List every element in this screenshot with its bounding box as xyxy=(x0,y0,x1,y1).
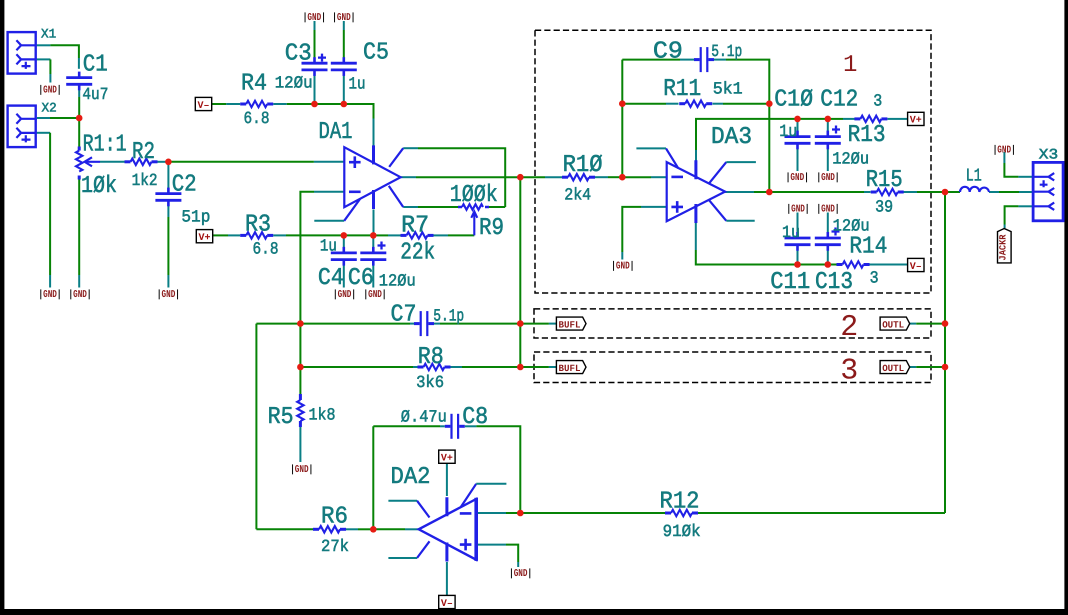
wire R3 to C4 node xyxy=(286,234,344,236)
wire C8 left xyxy=(373,425,440,427)
svg-text:|GND|: |GND| xyxy=(817,204,840,216)
wire C2 bottom lead xyxy=(167,203,169,217)
svg-text:|GND|: |GND| xyxy=(611,261,634,273)
svg-text:V+: V+ xyxy=(910,116,922,127)
junction bus top xyxy=(942,189,949,196)
wire R11 left stub xyxy=(666,103,679,105)
capacitor C8 xyxy=(445,414,465,439)
wire OUTL3 to bus xyxy=(916,366,945,368)
wire C5 gnd stub xyxy=(343,21,345,30)
wire C4 node to C6 node xyxy=(344,234,374,236)
wire DA2 pin stub a xyxy=(388,500,417,502)
wire C7 left stub xyxy=(410,323,414,325)
junction C4 xyxy=(341,232,348,239)
wire node to DA3 - xyxy=(622,176,651,178)
wire DA3 pwr top stub xyxy=(695,150,697,161)
svg-text:|GND|: |GND| xyxy=(787,204,810,216)
junction C6 xyxy=(370,232,377,239)
wire C8 right stub xyxy=(465,425,477,427)
svg-text:X2: X2 xyxy=(42,101,57,116)
wire X1 pin2 gnd stub xyxy=(49,74,51,83)
wire DA1 - stub xyxy=(314,191,344,193)
resistor R10 xyxy=(562,174,595,180)
resistor R11 xyxy=(679,101,712,107)
svg-text:DA3: DA3 xyxy=(711,124,752,151)
wire C9 loop left vertical xyxy=(621,60,623,178)
svg-text:R3: R3 xyxy=(245,211,271,238)
wire DA1 out to node xyxy=(416,176,520,178)
capacitor C5 xyxy=(331,57,357,76)
svg-text:OUTL: OUTL xyxy=(882,363,904,374)
wire R8 right stub xyxy=(451,366,463,368)
port V+ DA2 xyxy=(439,450,455,463)
wire C10 gnd lead xyxy=(797,146,799,172)
junction C8/R12 xyxy=(517,510,524,517)
wire R1 wiper lead xyxy=(85,161,101,163)
svg-text:27k: 27k xyxy=(321,538,349,557)
svg-text:BUFL: BUFL xyxy=(559,363,581,374)
wire DA3 out stub xyxy=(725,191,754,193)
svg-text:22k: 22k xyxy=(400,240,435,267)
wire DA3 + stub xyxy=(641,206,667,208)
wire left to C7 node xyxy=(256,323,300,325)
capacitor C2 xyxy=(155,188,181,207)
svg-text:C6: C6 xyxy=(348,265,374,292)
svg-text:2k4: 2k4 xyxy=(564,186,591,205)
wire R1 gnd stub xyxy=(78,275,80,288)
wire loop to DA3 out xyxy=(768,104,770,192)
wire DA3 - stub xyxy=(651,176,667,178)
wire R14 left stub xyxy=(836,264,838,266)
svg-text:3: 3 xyxy=(870,270,879,289)
resistor R15 xyxy=(871,189,904,195)
wire DA1 offset stub xyxy=(314,220,344,222)
wire DA2 + down xyxy=(506,545,518,562)
svg-text:1k2: 1k2 xyxy=(132,172,158,191)
wire X2 pin2 down xyxy=(49,133,51,275)
port OUTL row3 xyxy=(880,361,910,374)
wire DA2 V+ lead xyxy=(446,463,448,496)
capacitor C1 xyxy=(66,72,92,91)
connector X3 xyxy=(1033,162,1063,220)
svg-text:R14: R14 xyxy=(849,233,887,260)
wire X3 pin1 stub xyxy=(1018,176,1033,178)
capacitor C13 xyxy=(815,232,841,251)
wire R14 to V- box xyxy=(870,264,909,266)
wire C2 gnd stub xyxy=(167,275,169,288)
wire DA3 pwr to C11 xyxy=(696,250,798,265)
wire C8 right down xyxy=(476,426,520,513)
wire C8 left down xyxy=(372,426,374,529)
wire bus to R12 xyxy=(697,512,945,514)
wire R1 bottom down xyxy=(78,180,80,276)
wire R11 right stub xyxy=(713,103,724,105)
svg-text:51p: 51p xyxy=(181,209,210,228)
channel 2 dashed box xyxy=(534,309,931,338)
wire C7 right stub xyxy=(434,323,440,325)
resistor R7 xyxy=(401,232,434,238)
wire gnd to C3 xyxy=(314,30,316,62)
wire to IGND stub xyxy=(49,275,51,288)
capacitor C6 xyxy=(360,247,386,266)
junction row3 xyxy=(517,364,524,371)
wire R4 right stub xyxy=(273,103,287,105)
wire L1 right stub xyxy=(989,191,999,193)
wire to R7 xyxy=(373,234,388,236)
wire C13 bottom lead xyxy=(827,248,829,265)
junction C13 xyxy=(825,261,832,268)
wire R5 gnd lead xyxy=(299,427,301,462)
capacitor C9 xyxy=(694,47,714,72)
svg-text:1u: 1u xyxy=(349,76,366,95)
wire C11 top lead xyxy=(797,213,799,237)
channel 3 dashed box xyxy=(534,352,931,383)
svg-text:39: 39 xyxy=(875,198,893,217)
svg-text:C4: C4 xyxy=(318,265,344,292)
svg-text:OUTL: OUTL xyxy=(882,319,904,330)
junction row2 xyxy=(517,320,524,327)
wire DA1 comp8 stub xyxy=(403,206,418,208)
svg-text:R8: R8 xyxy=(418,344,444,371)
wire C11 bottom lead xyxy=(797,248,799,265)
svg-text:|GND|: |GND| xyxy=(157,289,180,301)
svg-text:3: 3 xyxy=(873,92,882,111)
port V- DA2 xyxy=(439,595,455,608)
wire R2 to node stub xyxy=(158,161,169,163)
wire gnd to X3 pin1 xyxy=(1004,163,1018,177)
potentiometer R1:1 xyxy=(76,147,92,180)
junction R11 right xyxy=(766,100,773,107)
op-amp DA2 xyxy=(419,497,477,561)
svg-text:V–: V– xyxy=(198,101,210,112)
capacitor C10 xyxy=(785,131,811,150)
wire C10 top lead xyxy=(797,119,799,135)
wire DA2 - stub xyxy=(476,512,506,514)
svg-text:5.1p: 5.1p xyxy=(433,308,464,327)
wire C7 to node xyxy=(440,323,520,325)
wire R9 to DA1 comp8 xyxy=(418,206,460,208)
svg-text:1u: 1u xyxy=(779,123,797,142)
svg-text:1k8: 1k8 xyxy=(309,407,336,426)
port OUTL row2 xyxy=(880,317,910,330)
wire R11 right xyxy=(723,103,769,105)
svg-text:Ø.47u: Ø.47u xyxy=(401,408,447,427)
wire C4 top lead xyxy=(343,235,345,251)
svg-text:1ØØk: 1ØØk xyxy=(450,182,498,209)
port V+ right xyxy=(908,112,924,125)
wire R7 left stub xyxy=(388,234,401,236)
svg-text:5k1: 5k1 xyxy=(713,80,743,99)
svg-text:C5: C5 xyxy=(363,40,389,67)
svg-text:|GND|: |GND| xyxy=(786,172,809,184)
svg-text:R12: R12 xyxy=(660,489,700,516)
junction C3 xyxy=(311,101,318,108)
port BUFL row3 xyxy=(556,361,586,374)
wire C9 left stub xyxy=(680,59,694,61)
resistor R12 xyxy=(665,510,698,516)
wire DA1 pwr top stub xyxy=(373,119,375,147)
svg-text:|GND|: |GND| xyxy=(303,12,326,24)
wire R6 to node xyxy=(358,528,373,530)
svg-text:R15: R15 xyxy=(866,167,903,194)
svg-text:DA2: DA2 xyxy=(391,464,431,491)
port V- top xyxy=(195,97,211,110)
wire R6 left stub xyxy=(312,528,315,530)
svg-text:R4: R4 xyxy=(241,70,267,97)
wire rail to DA1 V- xyxy=(344,104,374,119)
svg-text:1u: 1u xyxy=(782,224,800,243)
wire C1 top lead xyxy=(78,58,80,69)
svg-text:R13: R13 xyxy=(848,122,886,149)
wire V- to R4 xyxy=(212,103,227,105)
wire X3 pin3 stub xyxy=(1018,205,1033,207)
wire node to C7 xyxy=(300,323,410,325)
capacitor C12 xyxy=(815,131,841,150)
wire X2 pin1 stub xyxy=(37,117,50,119)
svg-text:R11: R11 xyxy=(663,76,701,103)
wire R15 right stub xyxy=(904,191,918,193)
wire node to DA1 + xyxy=(168,161,314,163)
wire to C9 xyxy=(622,59,680,61)
wire output bus vertical xyxy=(944,192,946,513)
svg-text:91Øk: 91Øk xyxy=(663,523,701,542)
svg-text:R9: R9 xyxy=(479,215,504,242)
resistor R2 xyxy=(125,159,158,165)
wire C6 gnd lead xyxy=(372,265,374,288)
svg-text:|GND|: |GND| xyxy=(290,464,313,476)
resistor R4 xyxy=(240,101,273,107)
junction R11 left xyxy=(619,100,626,107)
wire C3 gnd stub xyxy=(314,21,316,30)
resistor R6 xyxy=(313,526,346,532)
wire out to R15 xyxy=(769,191,864,193)
frame border left xyxy=(0,0,4,615)
wire DA2 + gnd stub xyxy=(517,562,519,567)
wire R15 to bus node xyxy=(917,191,945,193)
junction OUTL2 xyxy=(942,320,949,327)
svg-text:12Øu: 12Øu xyxy=(379,273,416,292)
svg-text:|GND|: |GND| xyxy=(332,12,355,24)
wire DA3 + down xyxy=(622,207,641,252)
junction R5/C7 row xyxy=(297,320,304,327)
svg-text:3: 3 xyxy=(840,354,858,388)
wire R8 to node xyxy=(462,366,520,368)
wire C4 gnd lead xyxy=(343,265,345,288)
port JACKR xyxy=(998,229,1012,263)
junction C12 xyxy=(825,116,832,123)
svg-text:C1: C1 xyxy=(83,52,108,79)
wire DA2 pin stub b xyxy=(388,557,417,559)
wire DA1 + stub xyxy=(314,161,344,163)
svg-text:C13: C13 xyxy=(815,269,853,296)
connector X2 xyxy=(8,106,37,148)
capacitor C11 xyxy=(785,232,811,251)
wire R12 right stub xyxy=(697,512,698,514)
op-amp DA3 xyxy=(667,160,725,223)
wire R8 left stub xyxy=(413,366,418,368)
svg-text:1Øk: 1Øk xyxy=(81,173,117,200)
resistor R13 xyxy=(854,116,887,122)
svg-text:12Øu: 12Øu xyxy=(832,151,869,170)
svg-text:R1:1: R1:1 xyxy=(83,132,127,159)
wire R13 left stub xyxy=(843,118,855,120)
wire left vertical xyxy=(255,324,257,530)
wire JACKR stub xyxy=(1004,225,1006,229)
wire DA2 V- lead xyxy=(446,562,448,595)
svg-text:|GND|: |GND| xyxy=(69,289,92,301)
junction DA1 out xyxy=(517,174,524,181)
frame border bottom xyxy=(0,609,1068,615)
wire R13 right stub xyxy=(888,118,894,120)
wire R7 right stub xyxy=(434,234,449,236)
port V+ left xyxy=(196,230,212,243)
svg-text:|GND|: |GND| xyxy=(993,145,1016,157)
junction R2/C2 xyxy=(165,159,172,166)
svg-text:V+: V+ xyxy=(199,233,211,244)
wire R11 left xyxy=(622,103,666,105)
wire V+ box stub xyxy=(894,118,908,120)
svg-text:C8: C8 xyxy=(462,404,488,431)
svg-text:|GND|: |GND| xyxy=(39,289,62,301)
svg-text:6.8: 6.8 xyxy=(244,110,270,129)
wire C11 to C13 node xyxy=(798,264,828,266)
wire R13 to C12 xyxy=(828,118,843,120)
wire DA1 pwr bottom lead xyxy=(373,210,375,236)
wire R15 left stub xyxy=(864,191,871,193)
port BUFL row2 xyxy=(556,317,586,330)
wire node to DA2 out xyxy=(373,528,405,530)
svg-text:R7: R7 xyxy=(401,212,429,239)
wire OUTL3 stub xyxy=(910,366,916,368)
svg-text:DA1: DA1 xyxy=(319,119,353,146)
wire C13 top lead xyxy=(827,213,829,237)
wire bus to L1 xyxy=(945,191,960,193)
wire gnd to C5 xyxy=(343,30,345,62)
wire X3 gnd stub xyxy=(1003,152,1005,163)
svg-text:C11: C11 xyxy=(770,269,810,296)
frame border right xyxy=(1064,0,1068,615)
wire C1 to node xyxy=(78,97,80,118)
wire row2 to BUFL xyxy=(520,323,549,325)
svg-text:R5: R5 xyxy=(268,404,294,431)
wire OUTL2 to bus xyxy=(916,323,945,325)
svg-text:C12: C12 xyxy=(820,86,858,113)
wire C1 bottom lead xyxy=(78,87,80,97)
wire C6 top lead xyxy=(372,235,374,251)
svg-text:R6: R6 xyxy=(321,503,348,530)
wire R10 to DA3 node xyxy=(608,176,622,178)
junction C11 xyxy=(794,261,801,268)
wire X1 pin2 down xyxy=(49,59,51,74)
junction X2/C1/R1 xyxy=(76,115,83,122)
wire feedback to R9 xyxy=(487,206,505,208)
resistor R5 xyxy=(297,394,303,427)
wire C2 to gnd xyxy=(167,217,169,275)
wire OUTL2 stub xyxy=(910,323,916,325)
wire BUFL2 stub xyxy=(549,323,557,325)
wire R10 right stub xyxy=(595,176,608,178)
connector X1 xyxy=(8,32,37,74)
svg-text:R2: R2 xyxy=(132,139,155,166)
wire C3 bottom lead xyxy=(314,75,316,104)
svg-text:V–: V– xyxy=(910,262,922,273)
svg-text:|GND|: |GND| xyxy=(39,84,62,96)
inductor L1 xyxy=(960,187,989,192)
junction R6/C8 xyxy=(370,526,377,533)
wire DA3 pin stub c xyxy=(726,220,754,222)
svg-text:X1: X1 xyxy=(41,26,56,41)
wire out1 vertical to rows xyxy=(519,177,521,367)
wire R4 to C5 node xyxy=(287,103,344,105)
junction C5 xyxy=(341,101,348,108)
wire C12 top lead xyxy=(827,119,829,135)
junction OUTL3 xyxy=(942,364,949,371)
svg-text:2: 2 xyxy=(840,311,858,345)
wire C12 to C10 xyxy=(798,118,828,120)
op-amp DA2 comp pins xyxy=(417,484,476,558)
svg-text:C7: C7 xyxy=(391,302,417,329)
potentiometer R9 xyxy=(458,204,489,235)
op-amp DA3 comp pins xyxy=(666,148,726,220)
wire R10 left stub xyxy=(545,176,562,178)
junction R10/DA3 xyxy=(619,174,626,181)
wire R12 left stub xyxy=(664,512,665,514)
junction C10 xyxy=(794,116,801,123)
wire DA1 - to R5 vertical xyxy=(300,192,314,394)
svg-text:JACKR: JACKR xyxy=(998,234,1009,260)
svg-text:C3: C3 xyxy=(285,40,312,67)
wire DA2 out stub xyxy=(405,528,419,530)
junction R5/R8 row xyxy=(297,364,304,371)
wire node to R10 xyxy=(520,176,545,178)
svg-text:1u: 1u xyxy=(320,238,337,257)
svg-text:C1Ø: C1Ø xyxy=(774,86,813,113)
wire X1 pin1 to C1 xyxy=(50,45,79,58)
resistor R3 xyxy=(240,232,273,238)
svg-text:5.1p: 5.1p xyxy=(711,43,742,62)
wire R6 right stub xyxy=(346,528,358,530)
wire DA3 pin stub a xyxy=(636,147,666,149)
svg-text:R1Ø: R1Ø xyxy=(563,152,603,179)
wire node to R8 xyxy=(300,366,413,368)
wire X3 pin3 to JACKR xyxy=(1005,206,1019,224)
svg-text:|GND|: |GND| xyxy=(817,172,840,184)
svg-text:BUFL: BUFL xyxy=(559,319,581,330)
wire C12 gnd lead xyxy=(827,146,829,172)
wire to out node xyxy=(754,191,769,193)
svg-text:1: 1 xyxy=(843,52,857,79)
wire C9 right down xyxy=(726,60,769,104)
wire DA3 + gnd stub xyxy=(621,252,623,260)
wire X2 pin2 stub xyxy=(37,132,50,134)
wire C2 top lead xyxy=(167,162,169,193)
op-amp DA1 comp pins xyxy=(344,148,403,221)
resistor R8 xyxy=(418,364,451,370)
wire X2 pin1 to node xyxy=(50,117,79,119)
wire L1 to X3 xyxy=(999,191,1019,193)
capacitor C3 xyxy=(302,57,328,76)
wire to R14 xyxy=(828,264,837,266)
wire R3 right stub xyxy=(273,234,286,236)
wire V+ rail to DA3 pwr xyxy=(696,119,798,150)
wire DA1 out stub xyxy=(401,176,416,178)
svg-text:X3: X3 xyxy=(1039,148,1058,164)
wire R4 left stub xyxy=(226,103,240,105)
svg-text:C9: C9 xyxy=(653,38,683,65)
wire node to DA2 xyxy=(506,512,520,514)
wire R7 to R9 wiper xyxy=(448,234,474,236)
wire left to R6 xyxy=(256,528,313,530)
